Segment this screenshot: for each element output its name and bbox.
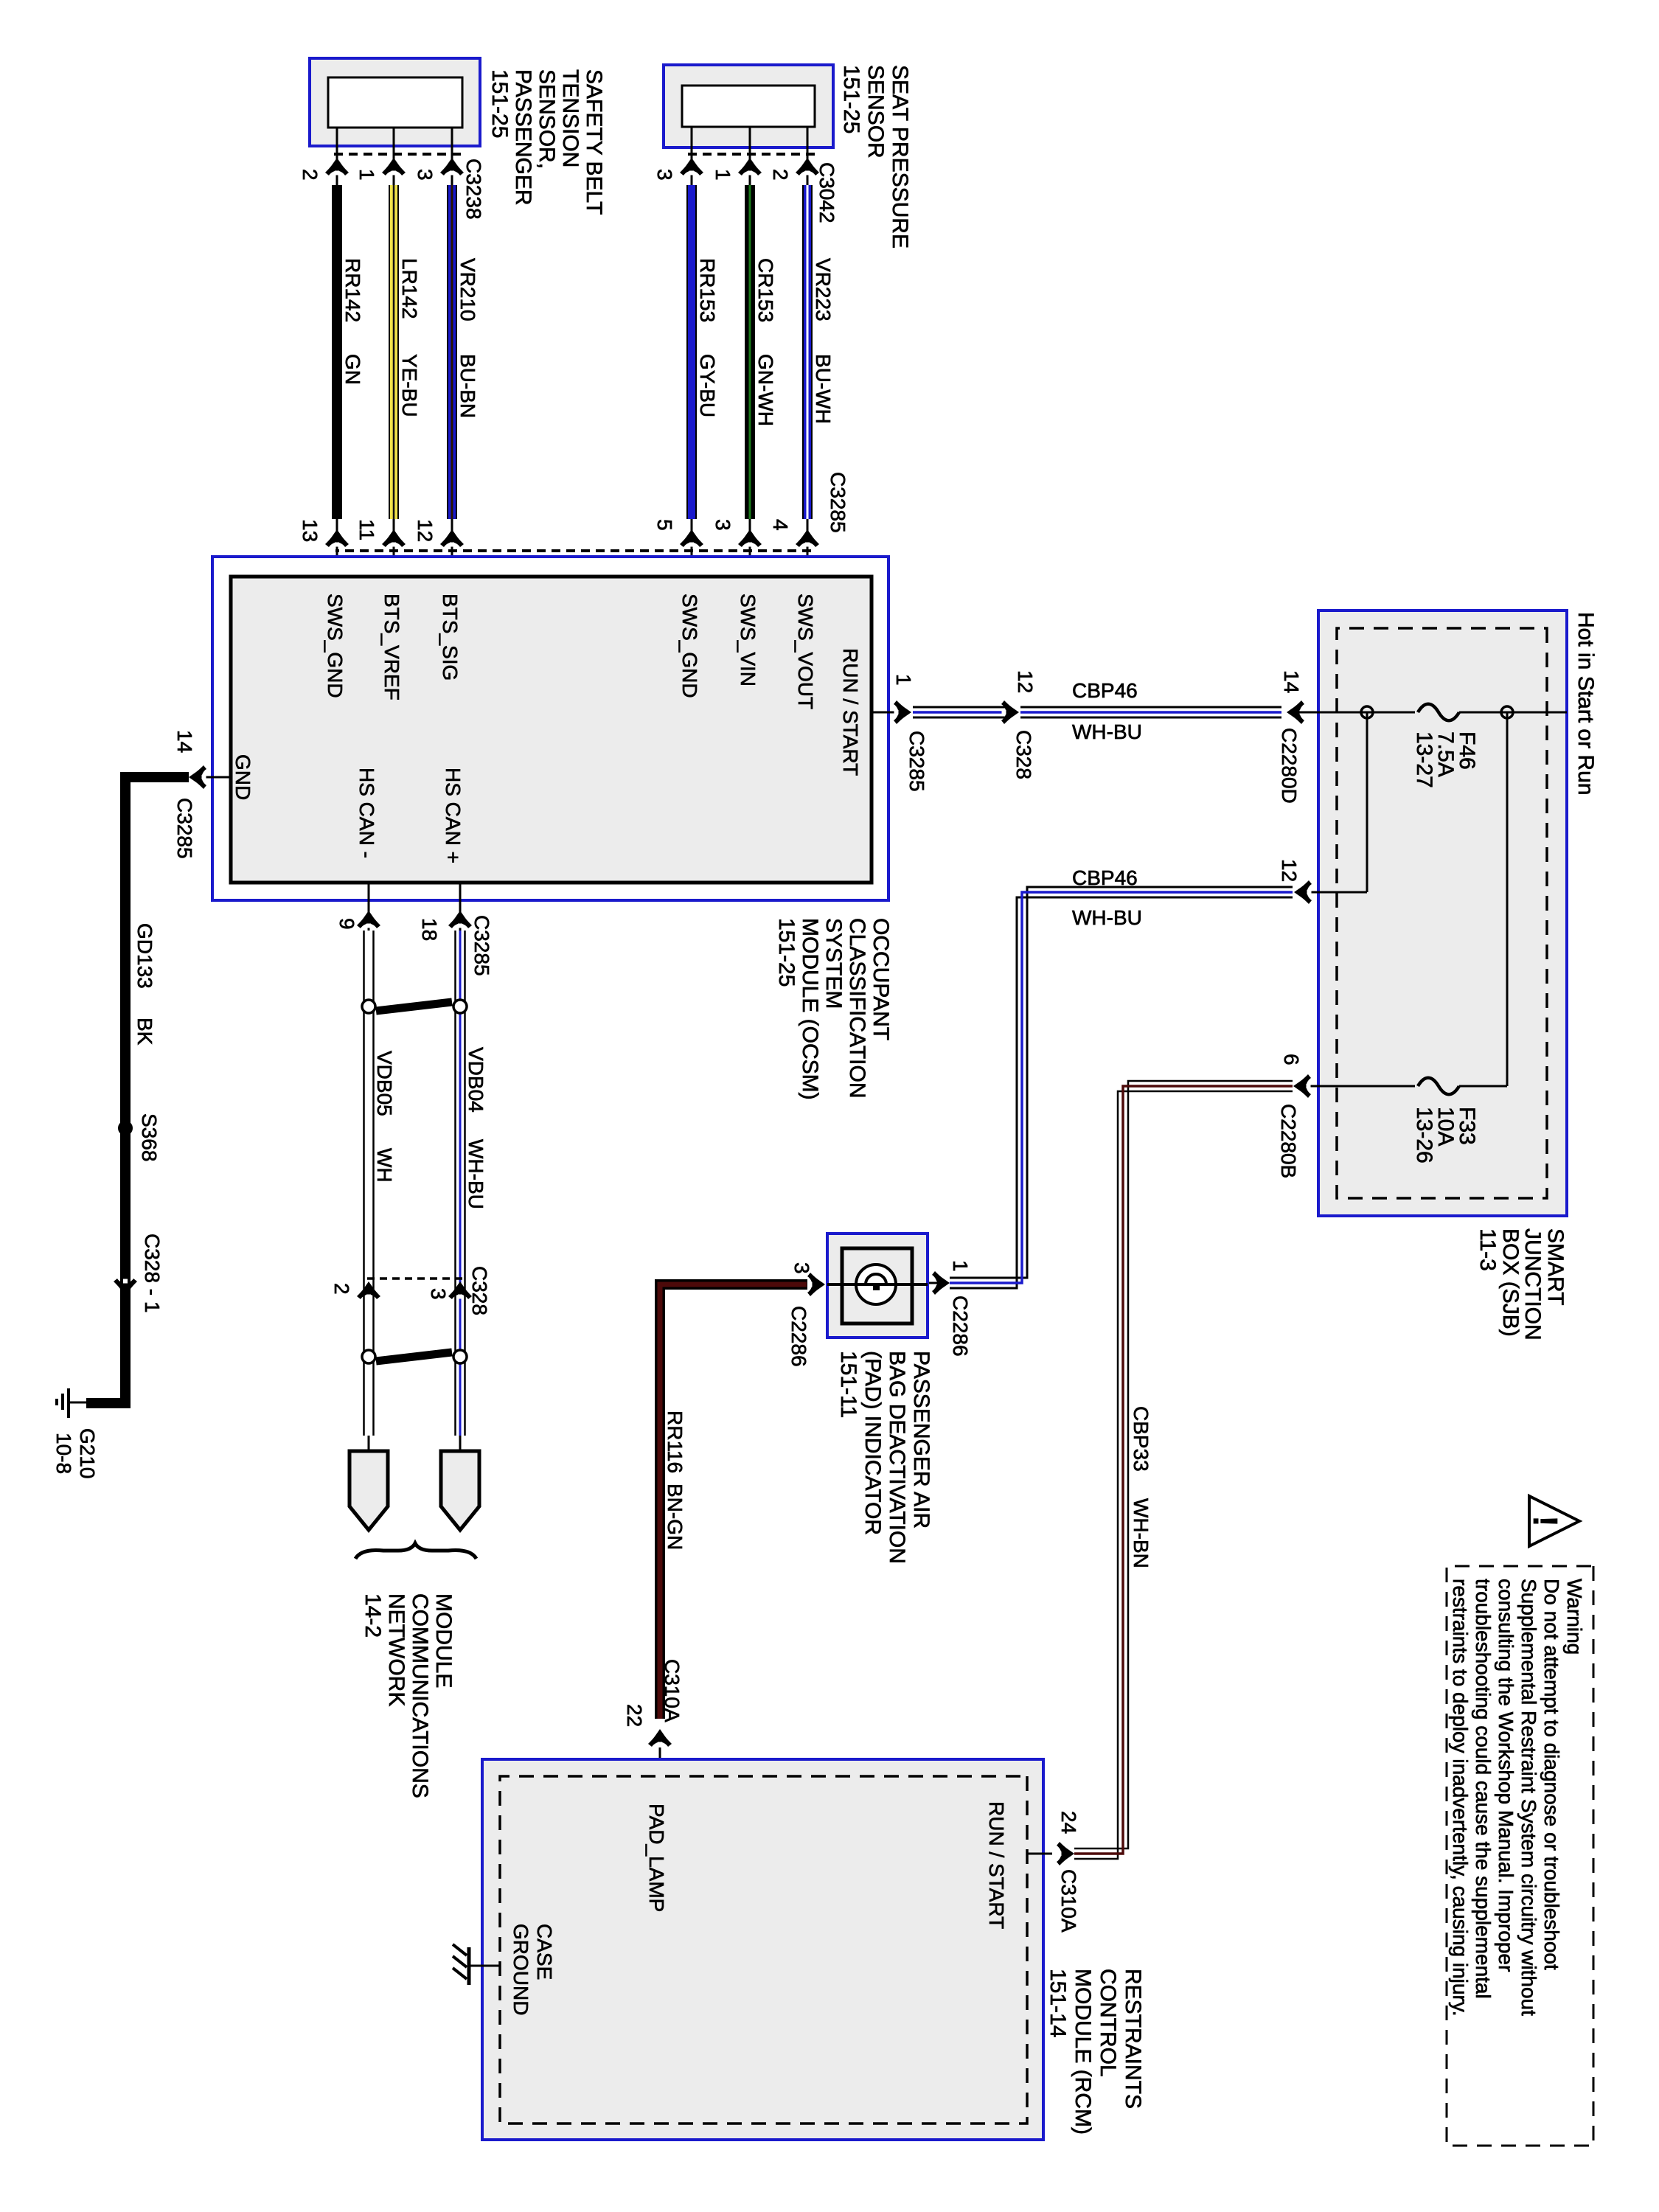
svg-text:3: 3 <box>790 1262 813 1274</box>
svg-text:CBP33: CBP33 <box>1130 1406 1152 1472</box>
svg-text:Warning: Warning <box>1563 1579 1586 1655</box>
svg-text:3: 3 <box>414 169 437 181</box>
svg-text:C2280D: C2280D <box>1278 728 1301 804</box>
svg-text:consulting the Workshop Manual: consulting the Workshop Manual. Improper <box>1495 1579 1517 1972</box>
svg-text:10-8: 10-8 <box>52 1433 75 1474</box>
svg-text:C2280B: C2280B <box>1277 1104 1300 1178</box>
svg-text:VDB04: VDB04 <box>465 1047 487 1113</box>
svg-text:C328: C328 <box>1012 730 1035 779</box>
svg-text:1: 1 <box>949 1260 972 1272</box>
svg-text:SENSOR: SENSOR <box>863 65 888 159</box>
svg-text:troubleshooting could cause th: troubleshooting could cause the suppleme… <box>1472 1579 1495 1999</box>
svg-text:13-27: 13-27 <box>1412 731 1436 788</box>
svg-text:151-25: 151-25 <box>839 65 863 133</box>
svg-text:RUN / START: RUN / START <box>839 648 862 776</box>
svg-text:BOX (SJB): BOX (SJB) <box>1498 1228 1523 1337</box>
svg-text:C3285: C3285 <box>470 915 493 976</box>
svg-text:3: 3 <box>427 1288 450 1300</box>
svg-text:CONTROL: CONTROL <box>1096 1969 1120 2077</box>
svg-text:(PAD) INDICATOR: (PAD) INDICATOR <box>860 1351 885 1535</box>
svg-text:CLASSIFICATION: CLASSIFICATION <box>845 918 869 1098</box>
svg-text:4: 4 <box>769 519 792 531</box>
svg-text:WH-BU: WH-BU <box>1072 906 1142 929</box>
svg-text:GY-BU: GY-BU <box>696 354 719 417</box>
svg-text:11-3: 11-3 <box>1475 1228 1500 1271</box>
svg-text:BTS_VREF: BTS_VREF <box>380 594 403 700</box>
svg-text:151-11: 151-11 <box>836 1351 860 1418</box>
svg-text:G210: G210 <box>76 1428 99 1479</box>
svg-text:C310A: C310A <box>1057 1869 1080 1933</box>
svg-text:GROUND: GROUND <box>509 1924 532 2015</box>
svg-text:SAFETY BELT: SAFETY BELT <box>582 69 606 215</box>
svg-text:RUN / START: RUN / START <box>985 1801 1008 1929</box>
svg-text:S368: S368 <box>138 1113 161 1161</box>
svg-text:BU-WH: BU-WH <box>812 354 835 424</box>
svg-text:BTS_SIG: BTS_SIG <box>439 594 462 681</box>
svg-text:C2286: C2286 <box>949 1295 972 1357</box>
svg-text:CBP46: CBP46 <box>1072 866 1138 889</box>
svg-text:SMART: SMART <box>1543 1228 1568 1305</box>
svg-text:HS CAN +: HS CAN + <box>442 768 465 863</box>
svg-text:HS CAN -: HS CAN - <box>355 768 378 858</box>
svg-text:SEAT PRESSURE: SEAT PRESSURE <box>888 65 912 248</box>
svg-text:WH-BN: WH-BN <box>1130 1498 1152 1568</box>
svg-text:24: 24 <box>1057 1811 1080 1834</box>
svg-text:RR142: RR142 <box>341 258 364 322</box>
svg-text:CR153: CR153 <box>754 258 777 322</box>
svg-text:OCCUPANT: OCCUPANT <box>869 918 893 1040</box>
svg-text:RR116: RR116 <box>664 1411 686 1473</box>
svg-text:!: ! <box>1526 1515 1565 1526</box>
svg-text:1: 1 <box>712 169 734 181</box>
svg-text:14: 14 <box>1280 670 1303 693</box>
svg-text:F46: F46 <box>1455 731 1479 770</box>
svg-text:CBP46: CBP46 <box>1072 679 1138 702</box>
svg-text:YE-BU: YE-BU <box>398 354 421 417</box>
svg-text:C328: C328 <box>468 1266 491 1315</box>
svg-text:151-25: 151-25 <box>774 918 799 987</box>
svg-text:SWS_GND: SWS_GND <box>678 594 701 698</box>
svg-text:WH: WH <box>373 1148 396 1183</box>
svg-text:C3238: C3238 <box>462 159 485 220</box>
svg-text:RR153: RR153 <box>696 258 719 322</box>
svg-text:2: 2 <box>330 1283 353 1295</box>
svg-text:GN: GN <box>341 354 364 385</box>
svg-text:C3042: C3042 <box>815 162 838 223</box>
svg-text:MODULE (OCSM): MODULE (OCSM) <box>798 918 822 1100</box>
svg-text:SWS_VIN: SWS_VIN <box>737 594 759 686</box>
svg-text:BAG DEACTIVATION: BAG DEACTIVATION <box>885 1351 909 1564</box>
svg-text:C2286: C2286 <box>787 1306 810 1367</box>
svg-text:COMMUNICATIONS: COMMUNICATIONS <box>408 1593 432 1798</box>
svg-text:Hot in Start or Run: Hot in Start or Run <box>1573 612 1598 795</box>
svg-text:6: 6 <box>1280 1054 1303 1065</box>
svg-text:BK: BK <box>133 1018 156 1046</box>
svg-text:GND: GND <box>232 754 254 800</box>
svg-text:PASSENGER: PASSENGER <box>511 69 535 206</box>
svg-text:Supplemental Restraint System: Supplemental Restraint System circuitry … <box>1517 1579 1540 2016</box>
svg-text:14: 14 <box>173 730 196 753</box>
svg-text:WH-BU: WH-BU <box>465 1139 487 1209</box>
svg-text:7.5A: 7.5A <box>1433 731 1458 777</box>
svg-text:VDB05: VDB05 <box>373 1051 396 1116</box>
svg-text:1: 1 <box>355 169 378 181</box>
svg-text:JUNCTION: JUNCTION <box>1520 1228 1545 1340</box>
svg-text:PAD_LAMP: PAD_LAMP <box>645 1804 668 1912</box>
svg-text:BU-BN: BU-BN <box>456 354 479 418</box>
svg-text:3: 3 <box>712 519 734 531</box>
svg-text:CASE: CASE <box>533 1924 556 1980</box>
svg-text:5: 5 <box>653 519 676 531</box>
svg-text:13: 13 <box>299 519 321 542</box>
svg-text:C328 - 1: C328 - 1 <box>141 1234 164 1312</box>
svg-text:NETWORK: NETWORK <box>384 1593 408 1706</box>
svg-text:C3285: C3285 <box>173 798 196 859</box>
svg-text:18: 18 <box>418 918 441 941</box>
svg-text:12: 12 <box>1014 670 1037 693</box>
svg-text:SENSOR,: SENSOR, <box>535 69 559 169</box>
svg-text:12: 12 <box>414 519 437 542</box>
svg-text:LR142: LR142 <box>398 258 421 319</box>
svg-text:22: 22 <box>623 1704 646 1727</box>
svg-text:13-26: 13-26 <box>1412 1107 1436 1164</box>
svg-text:F33: F33 <box>1455 1107 1479 1145</box>
svg-text:restraints to deploy inadverte: restraints to deploy inadvertently, caus… <box>1449 1579 1472 2016</box>
svg-text:2: 2 <box>299 169 321 181</box>
svg-text:SWS_VOUT: SWS_VOUT <box>794 594 817 709</box>
svg-text:GD133: GD133 <box>133 923 156 989</box>
svg-text:C310A: C310A <box>661 1659 684 1722</box>
svg-text:Do not attempt to diagnose or: Do not attempt to diagnose or troublesho… <box>1540 1579 1563 1970</box>
svg-text:TENSION: TENSION <box>558 69 582 167</box>
svg-text:14-2: 14-2 <box>361 1593 385 1638</box>
svg-text:C3285: C3285 <box>905 731 928 792</box>
svg-text:12: 12 <box>1278 859 1301 882</box>
svg-text:VR210: VR210 <box>456 258 479 321</box>
svg-text:2: 2 <box>769 169 792 181</box>
svg-text:11: 11 <box>355 519 378 540</box>
svg-text:MODULE: MODULE <box>431 1593 456 1688</box>
svg-text:VR223: VR223 <box>812 258 835 321</box>
svg-text:GN-WH: GN-WH <box>754 354 777 426</box>
svg-text:WH-BU: WH-BU <box>1072 720 1142 743</box>
svg-text:PASSENGER AIR: PASSENGER AIR <box>909 1351 933 1528</box>
svg-text:C3285: C3285 <box>827 472 849 533</box>
svg-text:SYSTEM: SYSTEM <box>821 918 846 1009</box>
svg-text:1: 1 <box>892 674 915 686</box>
svg-text:RESTRAINTS: RESTRAINTS <box>1121 1969 1145 2109</box>
svg-text:BN-GN: BN-GN <box>664 1484 686 1550</box>
svg-text:3: 3 <box>653 169 676 181</box>
svg-text:SWS_GND: SWS_GND <box>324 594 347 698</box>
svg-text:10A: 10A <box>1433 1107 1458 1146</box>
svg-text:151-14: 151-14 <box>1046 1969 1070 2037</box>
svg-text:151-25: 151-25 <box>487 69 512 138</box>
svg-text:9: 9 <box>335 918 358 930</box>
svg-text:MODULE (RCM): MODULE (RCM) <box>1071 1969 1095 2135</box>
